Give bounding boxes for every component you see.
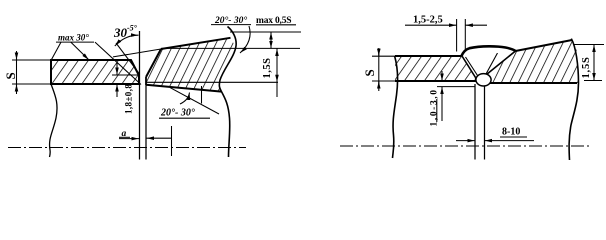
dimension 1,8 +/- 0,8 (root face) [112,74,139,76]
root face of right wall [145,77,147,85]
svg-text:8-10: 8-10 [502,127,520,138]
svg-text:S: S [3,72,18,79]
extension line from wall top level [230,31,301,33]
wavy break edge of right wall [219,27,236,158]
dimension 1,5S (right figure) [573,44,604,46]
angle arc arrow to vertical [115,35,139,46]
weld cap bead [461,46,516,56]
dimension S (left figure) [12,59,51,61]
svg-text:1,5S: 1,5S [262,58,273,79]
centerline (pipe axis, left figure) [8,147,246,149]
inner groove edge right [486,53,498,74]
svg-text:S: S [362,69,377,76]
svg-text:max 30°: max 30° [58,33,89,43]
inner fusion boundary left [466,57,478,76]
fusion line right (weld boundary) [487,51,516,75]
angle construction line (left side) [116,43,140,74]
thin construction line at lower wall level extended right [146,81,278,83]
wavy break edge left wall (right figure) [393,56,398,158]
dimension S (right figure) [372,55,396,57]
left pipe wall section (right figure), hatched [395,56,485,81]
extension line from bevel shoulder level [161,47,300,49]
wavy break edge of right wall (right figure) [569,39,578,160]
svg-text:1,5S: 1,5S [581,56,592,78]
left pipe wall section (left figure), hatched [51,60,139,84]
dimension 1,5S (left figure) [276,48,278,82]
dimension 1,0-3,0 (root bead height) [437,86,475,88]
svg-text:20°- 30°: 20°- 30° [160,108,195,119]
right pipe wall section (left figure), thicker, hatched [146,27,236,158]
bevel face of right wall [146,49,161,77]
centerline (pipe axis, right figure) [340,145,590,147]
dimension max 0,5S [270,32,272,48]
svg-text:1,8±0,8: 1,8±0,8 [124,84,134,114]
top taper edge (20-30 deg) of right wall [161,38,231,49]
fusion line left (groove edge) [462,56,476,78]
bottom taper edge of right wall [146,85,222,92]
vertical reference / root gap left line [139,31,141,160]
construction line from label to root [95,42,141,84]
right pipe wall section (right figure), hatched [485,39,579,160]
root gap right line [145,85,147,160]
top taper edge [516,40,573,51]
root bead [476,74,491,86]
root gap extension lines (right figure) [474,84,476,160]
svg-text:1,5-2,5: 1,5-2,5 [413,15,443,26]
svg-text:1,0-3,0: 1,0-3,0 [430,88,440,126]
extension line right of gap [171,126,173,156]
bottom edge [485,82,578,84]
break line below left wall (left figure) [50,84,58,157]
taper extension construction line [113,49,161,57]
bottom 20-30 angle annotation [170,88,219,114]
